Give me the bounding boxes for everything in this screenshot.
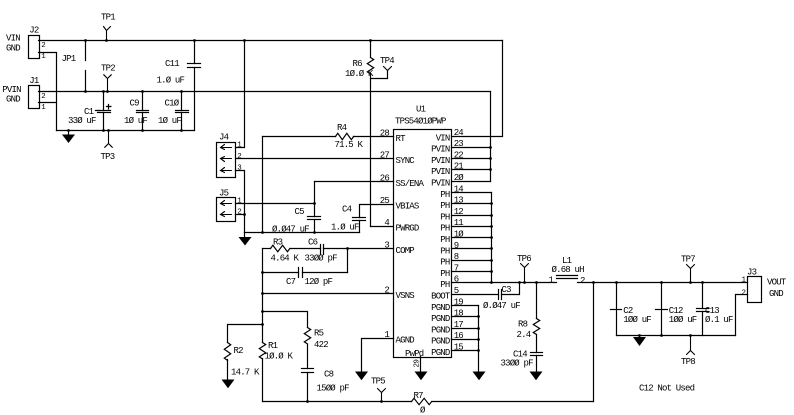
svg-text:PwPd: PwPd (405, 349, 424, 359)
svg-text:27: 27 (380, 150, 390, 160)
svg-text:21: 21 (454, 162, 464, 172)
capacitor C14 3300 pF (501, 350, 543, 381)
svg-text:C1Ø: C1Ø (165, 99, 180, 109)
resistor R3 4.64 K (271, 238, 300, 264)
svg-text:4.64 K: 4.64 K (271, 253, 300, 263)
svg-text:422: 422 (314, 340, 328, 350)
wire COMP network line (291, 248, 321, 250)
svg-text:GND: GND (6, 43, 20, 53)
svg-text:PH: PH (440, 258, 450, 268)
svg-text:1: 1 (237, 198, 242, 206)
capacitor C7 120 pF branch (261, 247, 349, 287)
svg-text:PH: PH (440, 190, 450, 200)
svg-text:Ø.68 uH: Ø.68 uH (552, 265, 585, 275)
wire VSNS U1 pin2 (261, 292, 393, 295)
svg-text:PVIN: PVIN (2, 85, 21, 95)
test point TP3 (101, 129, 115, 162)
inductor L1 0.68 uH (549, 256, 586, 286)
svg-text:1: 1 (237, 142, 242, 150)
U1 right pin numbers (454, 128, 465, 353)
svg-text:AGND: AGND (396, 336, 415, 346)
svg-text:PH: PH (440, 201, 450, 211)
test point TP8 (681, 334, 695, 367)
svg-text:25: 25 (380, 196, 390, 206)
svg-text:14.7 K: 14.7 K (231, 368, 260, 378)
svg-text:TP5: TP5 (371, 376, 385, 386)
svg-text:GND: GND (6, 94, 20, 104)
svg-text:2: 2 (237, 209, 241, 217)
resistor R2 14.7 K branch (222, 323, 264, 388)
svg-text:1: 1 (41, 104, 46, 112)
svg-text:J4: J4 (219, 133, 229, 143)
wire PWRGD U1 pin4 to R6 (371, 226, 394, 228)
capacitor C5 0.047 uF (272, 182, 321, 235)
svg-text:PVIN: PVIN (431, 156, 450, 166)
svg-text:PGND: PGND (431, 303, 450, 313)
svg-text:PVIN: PVIN (431, 179, 450, 189)
test point TP4 (371, 56, 395, 79)
wire SS/ENA to U1 pin26 (315, 181, 394, 183)
wire output ground bus (617, 335, 736, 337)
svg-text:VOUT: VOUT (767, 277, 787, 287)
wire AGND U1 pin1 to ground (355, 339, 394, 381)
svg-text:1Ø uF: 1Ø uF (124, 116, 147, 126)
wire VIN rail (39, 40, 503, 42)
capacitor C3 0.047 uF BOOT (452, 281, 521, 311)
svg-text:PGND: PGND (431, 337, 450, 347)
svg-text:PWRGD: PWRGD (396, 224, 419, 234)
svg-text:VIN: VIN (436, 133, 450, 143)
svg-text:3: 3 (384, 241, 389, 251)
svg-text:1.Ø uF: 1.Ø uF (331, 222, 359, 232)
svg-text:J5: J5 (219, 188, 229, 198)
wire R4 left leg to analog ground bus (261, 137, 264, 234)
wire analog ground bus (245, 232, 360, 234)
wire PH output node (492, 282, 557, 284)
capacitor C1 330 uF polarized (68, 90, 111, 132)
svg-text:2: 2 (237, 153, 241, 161)
test point TP7 (681, 255, 695, 284)
test point TP1 (101, 13, 115, 42)
svg-text:2: 2 (41, 93, 45, 101)
svg-text:1Ø.Ø K: 1Ø.Ø K (265, 352, 294, 362)
svg-text:R5: R5 (314, 329, 324, 339)
svg-text:PH: PH (440, 235, 450, 245)
svg-text:1: 1 (384, 330, 389, 340)
svg-text:TP6: TP6 (517, 254, 531, 264)
svg-text:PH: PH (440, 212, 450, 222)
svg-text:1Ø uF: 1Ø uF (158, 116, 181, 126)
resistor R4 71.5 K (263, 123, 394, 150)
svg-text:TP1: TP1 (101, 13, 115, 23)
svg-text:2: 2 (41, 42, 45, 50)
svg-text:Ø.Ø47 uF: Ø.Ø47 uF (483, 301, 520, 311)
test point TP2 (101, 64, 115, 93)
svg-text:C7: C7 (286, 277, 296, 287)
capacitor C2 100 uF (611, 281, 652, 335)
svg-text:C5: C5 (295, 207, 305, 217)
svg-text:PH: PH (440, 280, 450, 290)
svg-text:JP1: JP1 (62, 54, 76, 64)
capacitor C8 1500 pF (302, 369, 350, 403)
svg-text:12Ø pF: 12Ø pF (305, 277, 333, 287)
capacitor C13 0.1 uF (697, 281, 734, 335)
svg-text:R4: R4 (337, 123, 347, 133)
svg-text:C3: C3 (502, 285, 512, 295)
capacitor C11 1.0 uF (157, 39, 201, 130)
svg-text:R6: R6 (353, 59, 363, 69)
svg-text:33ØØ pF: 33ØØ pF (305, 253, 338, 263)
wire J1 pin1 (39, 102, 57, 104)
svg-text:1: 1 (549, 276, 554, 286)
svg-text:GND: GND (769, 289, 783, 299)
node R5 branch (261, 310, 307, 327)
svg-text:R8: R8 (518, 320, 528, 330)
svg-text:6: 6 (454, 275, 459, 285)
svg-text:71.5 K: 71.5 K (335, 140, 364, 150)
svg-text:PVIN: PVIN (431, 145, 450, 155)
svg-text:9: 9 (454, 241, 459, 251)
wire PH pins bus (452, 193, 493, 284)
wire VOUT feedback drop (592, 281, 595, 401)
wire VSNS node vertical (262, 249, 264, 343)
capacitor C4 1.0 uF (331, 204, 394, 232)
svg-text:VSNS: VSNS (396, 291, 415, 301)
wire PVIN pins staircase (452, 92, 492, 182)
ground PwPd pin 29 (414, 357, 428, 381)
resistor R1 10.0 K (259, 341, 293, 402)
svg-text:R2: R2 (234, 346, 244, 356)
svg-text:PGND: PGND (431, 325, 450, 335)
wire L1 to J3 (578, 282, 748, 284)
svg-text:PH: PH (440, 269, 450, 279)
connector J2 (6, 26, 46, 61)
wire input ground bus (57, 130, 195, 132)
svg-text:C11: C11 (165, 59, 179, 69)
svg-text:C12 Not Used: C12 Not Used (639, 383, 695, 393)
ground analog bus (239, 233, 252, 246)
svg-text:VBIAS: VBIAS (396, 201, 419, 211)
connector J1 (2, 76, 46, 112)
svg-text:TP3: TP3 (101, 152, 115, 162)
svg-text:4: 4 (384, 218, 389, 228)
wire VOUT sense bottom line (263, 401, 594, 403)
wire J3 pin2 to output ground bus (736, 295, 748, 336)
resistor R7 0 (412, 391, 432, 415)
svg-text:SS/ENA: SS/ENA (396, 179, 425, 189)
svg-text:J2: J2 (29, 26, 39, 36)
svg-text:2.4: 2.4 (517, 330, 531, 340)
svg-text:33Ø uF: 33Ø uF (68, 116, 96, 126)
svg-text:1: 1 (742, 277, 747, 285)
svg-text:1ØØ uF: 1ØØ uF (623, 315, 651, 325)
svg-text:3: 3 (237, 164, 242, 172)
capacitor C6 3300 pF (305, 238, 338, 264)
connector J4 (217, 133, 243, 178)
svg-text:RT: RT (396, 134, 407, 144)
U1 left pin names (396, 134, 425, 359)
svg-text:TP8: TP8 (681, 357, 695, 367)
wire J5 pin1 to C5/SS-ENA (236, 203, 315, 205)
svg-text:1.Ø uF: 1.Ø uF (157, 75, 185, 85)
svg-text:28: 28 (380, 129, 390, 139)
svg-text:C8: C8 (324, 370, 334, 380)
wire J2 pin1 to ground bus (39, 53, 57, 131)
svg-text:29: 29 (414, 360, 422, 368)
wire pin24 VIN stub to VIN rail (452, 41, 503, 137)
svg-text:Ø: Ø (420, 405, 426, 415)
U1 left pin numbers (380, 129, 390, 341)
svg-text:Ø.1 uF: Ø.1 uF (705, 315, 733, 325)
svg-text:R1: R1 (268, 341, 278, 351)
svg-text:PGND: PGND (431, 314, 450, 324)
jumper JP1 (62, 39, 87, 93)
svg-text:Ø.Ø47 uF: Ø.Ø47 uF (272, 224, 309, 234)
svg-text:15ØØ pF: 15ØØ pF (317, 383, 350, 393)
svg-text:TP2: TP2 (101, 64, 115, 74)
resistor R5 422 (304, 328, 328, 369)
wire J4 pin3 to analog ground (236, 171, 246, 233)
connector J3 (742, 267, 787, 302)
svg-text:1: 1 (41, 53, 46, 61)
wire J5 pin2 (236, 214, 245, 216)
svg-text:R3: R3 (273, 238, 283, 248)
svg-text:VIN: VIN (6, 34, 20, 44)
U1 right pin names (431, 133, 451, 358)
svg-text:1ØØ uF: 1ØØ uF (669, 315, 697, 325)
svg-text:2: 2 (384, 285, 389, 295)
svg-text:U1: U1 (416, 104, 426, 114)
capacitor C12 100 uF (656, 281, 697, 337)
wire PVIN rail (39, 91, 491, 93)
test point TP5 (371, 376, 386, 403)
svg-text:C4: C4 (342, 204, 352, 214)
svg-text:J1: J1 (29, 76, 39, 86)
svg-text:2: 2 (742, 290, 746, 298)
svg-text:TP7: TP7 (681, 255, 695, 265)
svg-text:TP4: TP4 (380, 56, 394, 66)
svg-text:PGND: PGND (431, 348, 450, 358)
test point TP6 (517, 254, 531, 284)
svg-text:1Ø.Ø K: 1Ø.Ø K (345, 69, 374, 79)
wire VIN rail drop to J4 pin1 (236, 39, 246, 147)
ground output bus (633, 334, 646, 346)
svg-text:R7: R7 (414, 391, 424, 401)
svg-text:J3: J3 (747, 267, 757, 277)
resistor R8 2.4 (517, 281, 540, 352)
resistor R6 10.0 K (345, 39, 374, 226)
svg-text:PVIN: PVIN (431, 167, 450, 177)
svg-text:SYNC: SYNC (396, 156, 416, 166)
capacitor C10 10 uF (158, 90, 189, 132)
svg-text:C6: C6 (308, 238, 318, 248)
wire SYNC J4 pin2 to U1 pin27 (236, 158, 394, 160)
op-amp U1 TPS54010PWP body (394, 104, 452, 357)
svg-text:BOOT: BOOT (431, 292, 451, 302)
svg-text:26: 26 (380, 173, 390, 183)
svg-text:C9: C9 (130, 99, 140, 109)
svg-text:2: 2 (580, 276, 585, 286)
capacitor C9 10 uF (124, 90, 149, 132)
svg-text:PH: PH (440, 246, 450, 256)
svg-text:TPS54Ø1ØPWP: TPS54Ø1ØPWP (395, 116, 446, 126)
svg-text:COMP: COMP (396, 246, 415, 256)
svg-text:PH: PH (440, 224, 450, 234)
connector J5 (217, 188, 243, 221)
ground input bus (62, 129, 75, 143)
wire PGND pins staircase to ground (452, 306, 486, 381)
svg-text:33ØØ pF: 33ØØ pF (501, 358, 534, 368)
